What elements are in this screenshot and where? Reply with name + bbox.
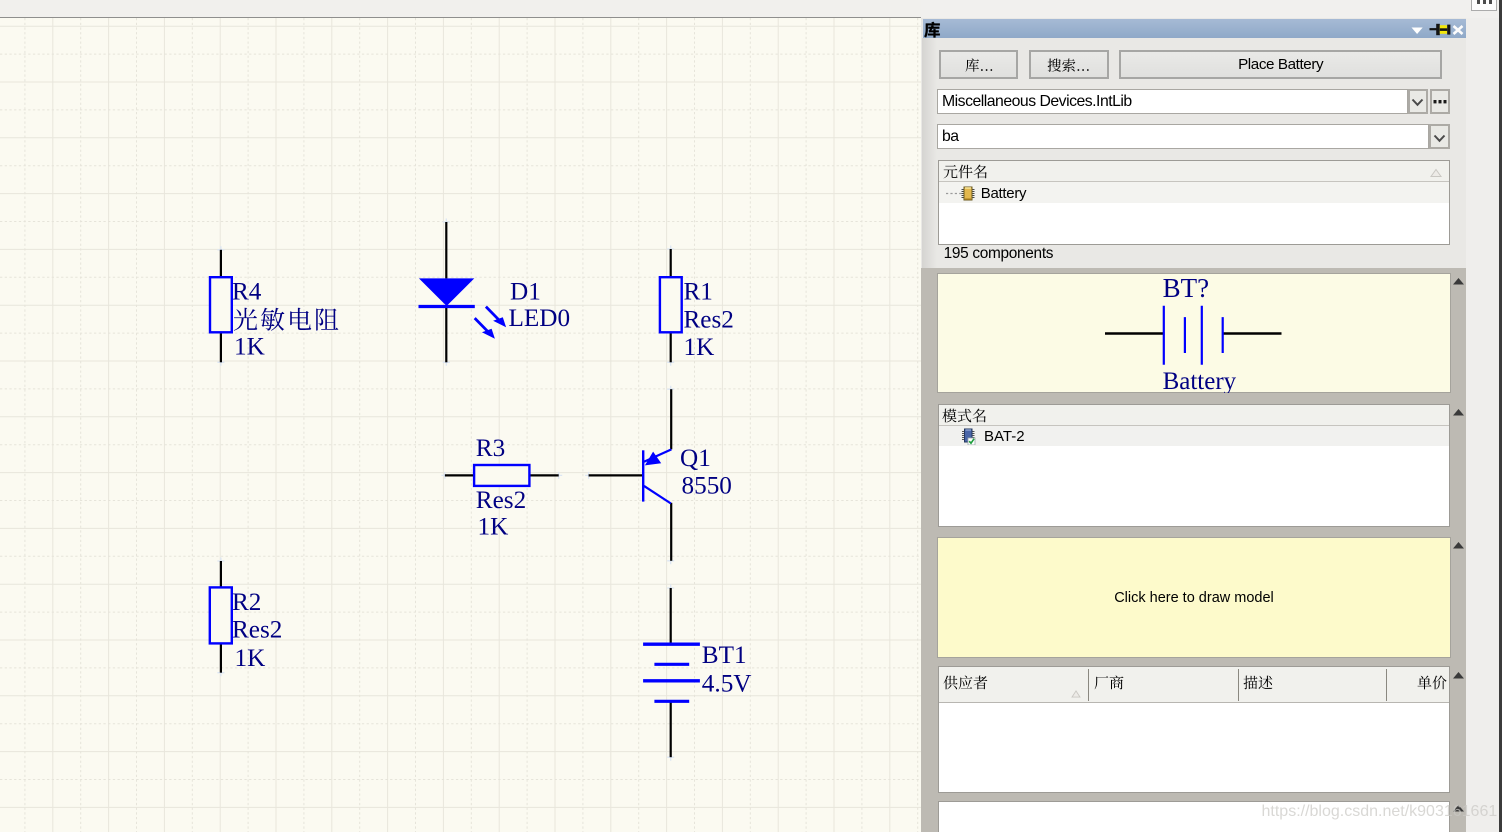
wire R3 pin 1 (445, 474, 474, 476)
resistor R1 body (660, 277, 682, 332)
battery BT1 plate long 1 (643, 643, 700, 646)
titlebar pin icon (1429, 23, 1451, 36)
scroll arrow preview (1452, 277, 1465, 286)
IC icon (960, 186, 976, 201)
wire R3 pin 2 (530, 474, 559, 476)
button 库... (939, 50, 1018, 78)
table sort indicator (1071, 690, 1081, 698)
label R4 光敏电阻 (233, 300, 345, 335)
preview battery plates (1164, 306, 1202, 365)
resistor R2 body (210, 587, 232, 643)
model list box (938, 404, 1451, 527)
titlebar close (1452, 25, 1464, 35)
svg-text:R2: R2 (232, 589, 261, 616)
transistor Q1 base bar (642, 450, 644, 501)
button Place Battery (1119, 50, 1442, 78)
wire D1 anode pin (445, 222, 447, 278)
transistor Q1 collector (644, 486, 671, 504)
svg-text:8550: 8550 (682, 472, 732, 499)
wire R2 pin 2 (220, 644, 222, 673)
wire Q1 base pin (589, 474, 643, 476)
button 搜索... (1029, 50, 1108, 78)
wire R1 pin 1 (670, 249, 672, 277)
scroll arrow models (1452, 408, 1465, 417)
svg-text:1K: 1K (234, 334, 265, 361)
wire R1 pin 2 (670, 332, 672, 362)
svg-text:Res2: Res2 (684, 307, 734, 334)
resistor R3 body (474, 465, 529, 486)
battery BT1 plate short 1 (654, 663, 689, 666)
svg-text:1K: 1K (235, 645, 266, 672)
svg-text:1K: 1K (684, 334, 715, 361)
preview box (937, 273, 1450, 393)
svg-text:BT?: BT? (1163, 273, 1210, 303)
pin hotspot markers (217, 219, 674, 761)
wire D1 cathode pin (445, 306, 447, 362)
draw model box (937, 537, 1450, 659)
scroll arrow drawmodel (1452, 541, 1465, 550)
model icon (961, 428, 978, 445)
transistor Q1 emitter (644, 449, 671, 461)
svg-text:Res2: Res2 (476, 487, 526, 514)
transistor Q1 emitter arrow (645, 452, 661, 466)
LED D1 emission arrow 2 (475, 318, 495, 339)
LED D1 cathode bar (419, 305, 475, 308)
search box ba (937, 124, 1429, 149)
wire R2 pin 1 (220, 561, 222, 587)
wire R4 pin 1 (220, 250, 222, 277)
LED D1 emission arrow 1 (486, 307, 506, 328)
resistor R4 body (210, 277, 232, 332)
LED D1 triangle (419, 278, 474, 306)
library dropdown (937, 89, 1408, 114)
battery BT1 plate short 2 (654, 700, 689, 703)
supplier table (938, 666, 1451, 793)
battery list row (939, 182, 1450, 203)
wire R4 pin 2 (220, 332, 222, 362)
svg-text:R3: R3 (476, 435, 505, 462)
wire BT1 positive pin (670, 588, 672, 644)
wire BT1 negative pin (670, 702, 672, 758)
bottom box (938, 801, 1451, 832)
scroll arrow bottom (1452, 804, 1465, 813)
library panel background (921, 18, 1466, 832)
svg-text:D1: D1 (510, 279, 541, 306)
svg-text:Res2: Res2 (232, 617, 282, 644)
scroll arrow table (1452, 671, 1465, 680)
svg-text:1K: 1K (478, 514, 509, 541)
wire Q1 emitter pin (670, 389, 672, 449)
svg-text:BT1: BT1 (702, 642, 747, 669)
svg-text:Q1: Q1 (680, 445, 711, 472)
csdn watermark (1262, 803, 1498, 821)
titlebar collapse arrow (1410, 26, 1424, 35)
svg-text:4.5V: 4.5V (702, 671, 752, 698)
svg-text:Battery: Battery (1163, 368, 1237, 393)
preview battery wires (1105, 332, 1282, 334)
sort indicator (1430, 168, 1442, 178)
component list box (938, 160, 1451, 245)
svg-text:R1: R1 (684, 279, 713, 306)
wire Q1 collector pin (670, 503, 672, 561)
panel title bar (923, 19, 1466, 39)
svg-text:LED0: LED0 (509, 305, 571, 332)
battery BT1 plate long 2 (643, 679, 700, 682)
195 components (944, 245, 1054, 263)
BAT-2 row (939, 426, 1450, 446)
